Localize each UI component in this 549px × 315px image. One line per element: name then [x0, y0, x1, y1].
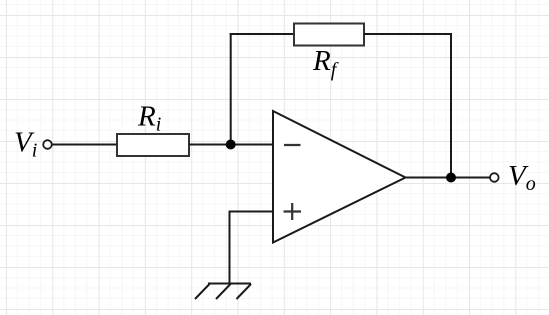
terminal Vo (output port circle) [490, 173, 499, 182]
wire: feedback right vertical down to output node [450, 33, 452, 178]
node junction at inverting input [226, 140, 236, 150]
node junction at output [446, 173, 456, 183]
wire: vertical down to ground [229, 211, 231, 284]
wire: op-amp output to Vo terminal [405, 177, 490, 179]
ground symbol [195, 284, 251, 300]
wire: non-inverting input to ground branch [230, 211, 274, 213]
wire input: Vi terminal to Ri [52, 144, 117, 146]
op-amp U1 body [273, 111, 406, 243]
op-amp non-inverting input marker (plus) [284, 203, 302, 220]
wire: feedback top-left to Rf [230, 33, 294, 35]
op-amp inverting input marker (minus) [284, 144, 301, 146]
wire: Rf to right feedback corner [364, 33, 452, 35]
wire: Ri to op-amp inverting input [189, 144, 273, 146]
resistor Ri [117, 134, 189, 156]
terminal Vi (input port circle) [43, 140, 52, 149]
wire: junction up to feedback branch [230, 33, 232, 145]
resistor Rf [294, 24, 364, 46]
